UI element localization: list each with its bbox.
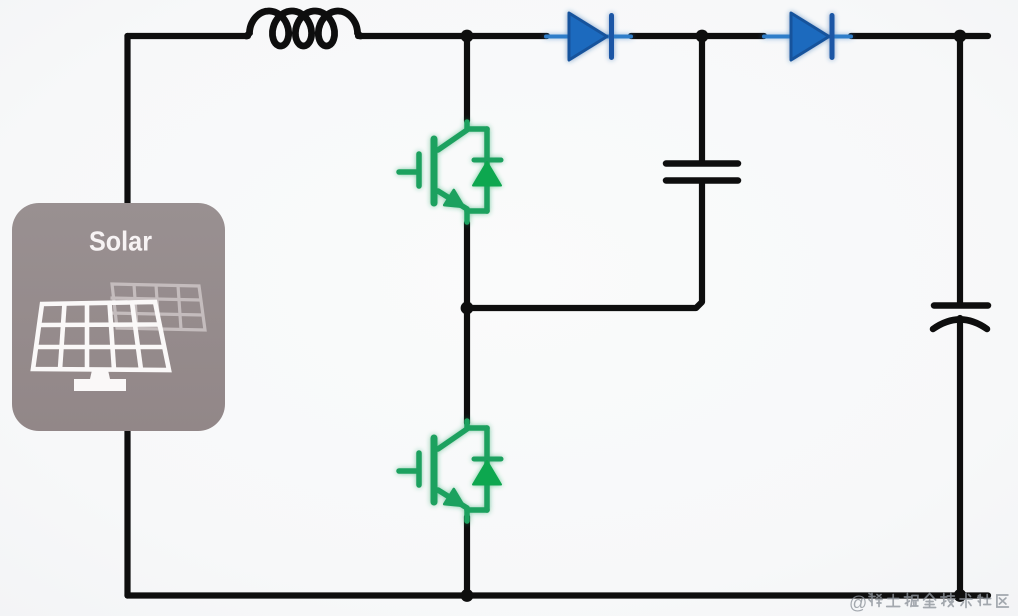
- node top junction at C1 branch: [696, 30, 709, 43]
- solar source block: [12, 203, 225, 431]
- wire C1 top feed: [699, 36, 705, 163]
- svg-text:@: @: [849, 593, 867, 613]
- wire C1 bottom to midpoint node: [467, 181, 702, 308]
- IGBT Q1: [399, 122, 501, 222]
- wire top rail segment D (D2 to right corner stub): [851, 33, 988, 39]
- svg-text:Solar: Solar: [89, 226, 152, 257]
- wire right vertical upper (to C2 top): [957, 36, 963, 303]
- node midpoint junction: [461, 302, 474, 315]
- diode D2: [764, 13, 851, 60]
- node top junction at Q1 branch: [461, 30, 474, 43]
- node top-right corner: [954, 30, 967, 43]
- IGBT Q2: [399, 421, 501, 521]
- wire bottom rail: [128, 592, 989, 598]
- capacitor C2 (polarized): [933, 306, 988, 330]
- node bottom-right corner: [954, 589, 967, 602]
- wire top rail segment B (inductor to D1): [358, 33, 547, 39]
- front panel: [33, 302, 169, 370]
- wire right vertical lower (C2 to bottom rail): [957, 318, 963, 596]
- wire Q1-Q2 midpoint vertical: [464, 223, 470, 423]
- inductor L1: [247, 11, 361, 46]
- wire Q2 emitter to bottom rail: [464, 517, 470, 596]
- node bottom junction at Q2: [461, 589, 474, 602]
- wire Q1 collector feed: [464, 36, 470, 121]
- back panel: [109, 284, 205, 330]
- wire left vertical (solar to top/bottom rails): [124, 36, 130, 596]
- wire top rail segment C (D1 to D2): [631, 33, 764, 39]
- panel stand: [74, 370, 126, 391]
- capacitor C1: [666, 164, 738, 181]
- wire top rail segment A: [128, 33, 249, 39]
- diode D1: [546, 13, 631, 60]
- watermark @稀土掘金技术社区: [849, 593, 1008, 613]
